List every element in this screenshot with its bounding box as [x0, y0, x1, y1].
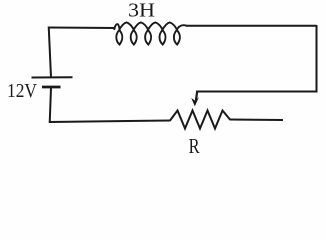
- svg-text:12V: 12V: [7, 80, 37, 102]
- wire wiper vertical: [196, 91, 197, 101]
- wire right vertical: [316, 25, 318, 92]
- battery B1 short plate: [42, 86, 61, 89]
- wire top-left horizontal: [49, 27, 116, 30]
- wire bottom horizontal: [49, 121, 171, 123]
- svg-text:3H: 3H: [128, 0, 155, 22]
- wire left vertical lower: [50, 88, 51, 123]
- wire left vertical upper: [49, 27, 51, 78]
- arrowhead onto resistor: [191, 97, 199, 106]
- svg-text:R: R: [189, 134, 201, 158]
- resistor R zigzag: [170, 111, 230, 129]
- wire top-right horizontal: [186, 25, 317, 27]
- inductor L1 coil: [114, 22, 186, 44]
- wire wiper feedback horizontal: [197, 91, 318, 93]
- wire resistor right lead: [230, 119, 284, 122]
- battery B1 long plate: [32, 76, 73, 78]
